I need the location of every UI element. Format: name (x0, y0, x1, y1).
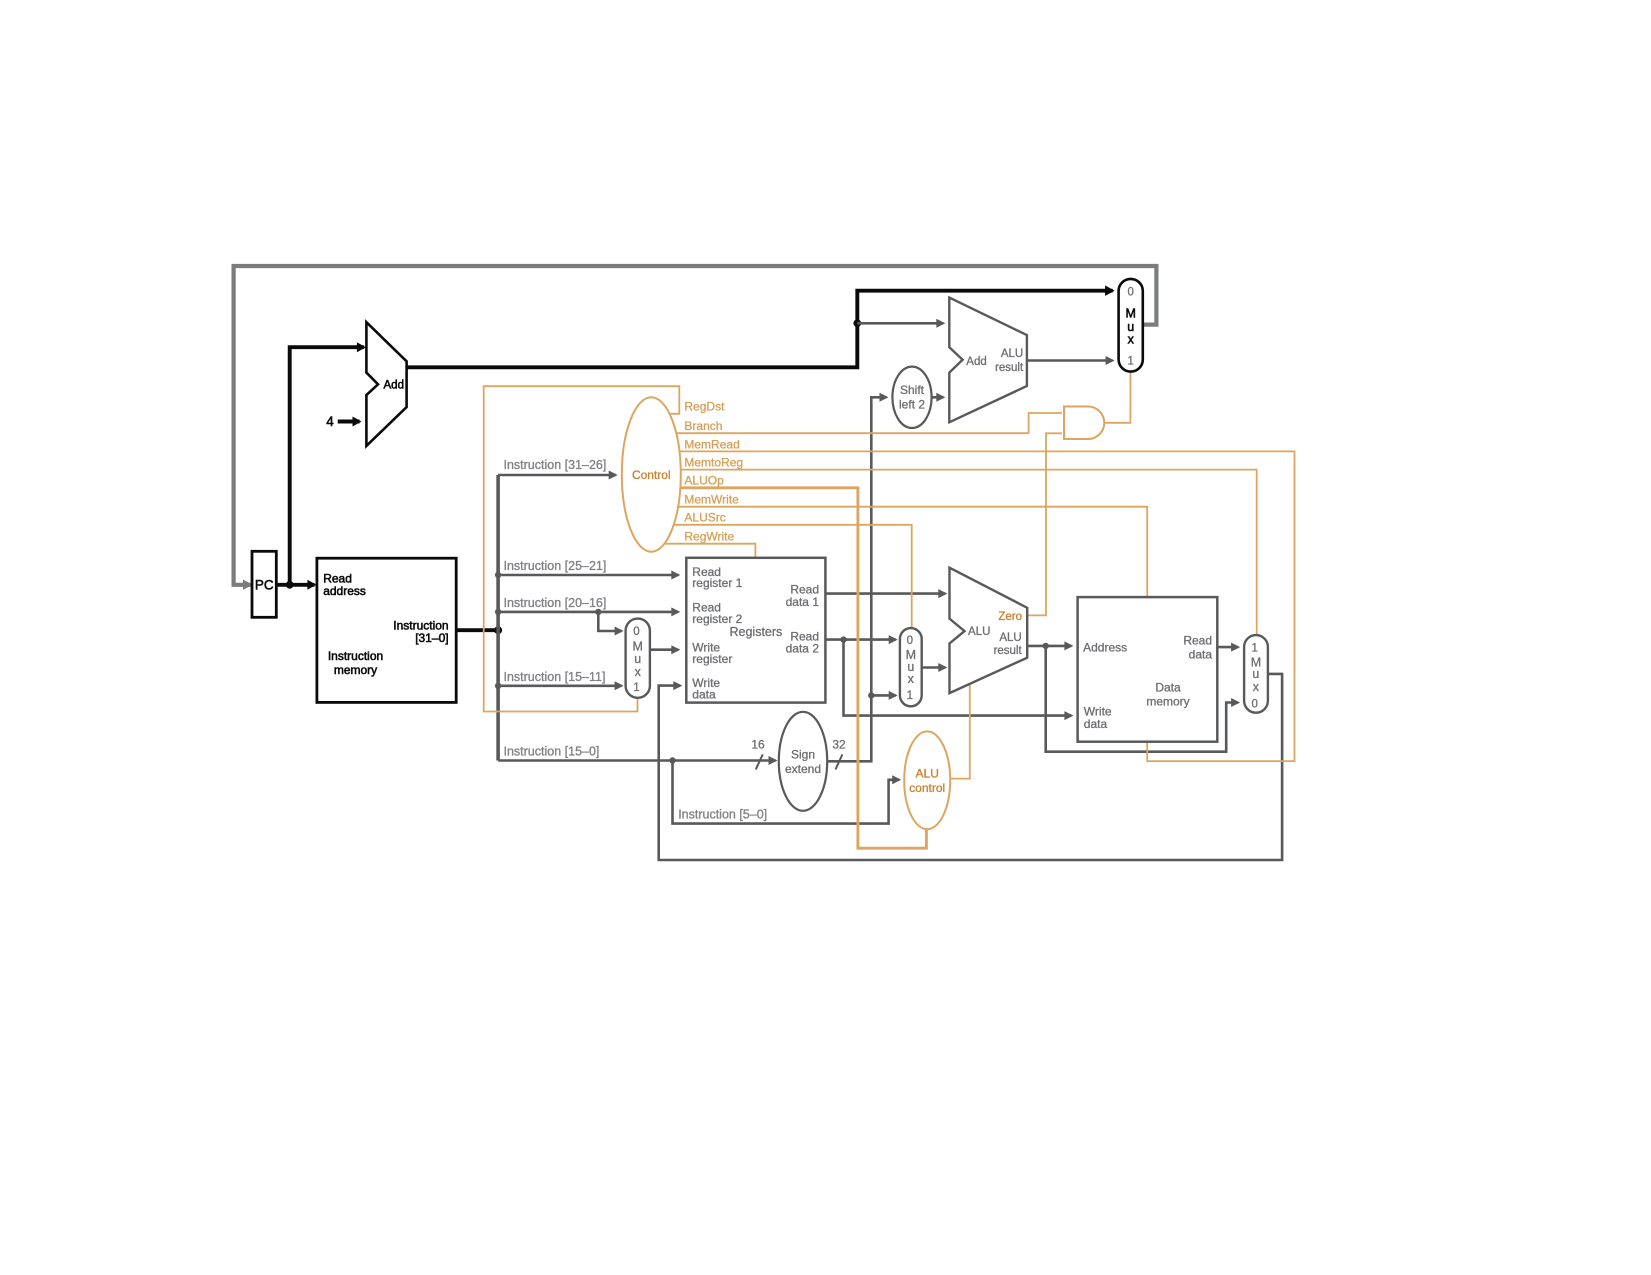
svg-text:RegDst: RegDst (684, 400, 725, 414)
svg-text:extend: extend (785, 762, 821, 776)
svg-text:MemRead: MemRead (684, 437, 739, 451)
svg-text:MemWrite: MemWrite (684, 493, 739, 507)
wire MemRead control to Data memory (660, 451, 1295, 761)
svg-text:u: u (634, 652, 641, 666)
svg-text:x: x (1128, 332, 1135, 346)
wire Read data 1 to ALU (825, 592, 945, 595)
ellipse ALU control (904, 731, 950, 829)
svg-text:data 2: data 2 (786, 641, 820, 655)
wire PC to Instruction memory read address (black) (276, 583, 314, 587)
ellipse Sign extend (779, 712, 827, 811)
svg-text:1: 1 (1127, 356, 1133, 368)
svg-text:result: result (994, 645, 1023, 657)
svg-text:1: 1 (633, 682, 639, 694)
node trunk junction 20-16 (495, 609, 501, 615)
svg-text:16: 16 (751, 738, 765, 752)
svg-text:0: 0 (633, 626, 639, 638)
svg-text:[31–0]: [31–0] (415, 631, 448, 645)
svg-text:ALU: ALU (1001, 348, 1023, 360)
svg-text:Instruction [15–11]: Instruction [15–11] (504, 670, 606, 684)
wire MemWrite control to Data memory (660, 507, 1147, 596)
wire MemtoReg control to right mux select (660, 470, 1257, 634)
wire write-back: right mux output to Registers Write data (659, 674, 1282, 860)
svg-text:Instruction [5–0]: Instruction [5–0] (678, 808, 767, 822)
wire Instruction [20-16] to Read register 2 (498, 611, 678, 614)
box Instruction memory (317, 558, 456, 702)
wire sign extend output to ALU-src mux input 1 (871, 694, 895, 697)
svg-text:Instruction [31–26]: Instruction [31–26] (504, 458, 607, 472)
svg-text:Read: Read (1183, 634, 1212, 648)
svg-text:0: 0 (1251, 698, 1257, 710)
svg-text:memory: memory (1146, 695, 1189, 709)
svg-text:Address: Address (1083, 640, 1127, 654)
wire write-register mux output to Write register (650, 648, 678, 651)
wire ALU-src mux output to ALU (922, 666, 946, 669)
svg-text:data: data (692, 688, 716, 702)
svg-text:data: data (1189, 648, 1213, 662)
node PC+4 junction to branch adder (853, 319, 861, 327)
svg-text:data: data (1084, 717, 1108, 731)
box Registers (686, 558, 825, 703)
wire AND gate output to top mux select (1104, 371, 1130, 423)
node instruction trunk junction (494, 626, 502, 634)
svg-text:ALUSrc: ALUSrc (684, 511, 725, 525)
mux top (PCSrc) (1119, 279, 1143, 372)
gate AND (branch) (1064, 407, 1104, 440)
svg-text:32: 32 (832, 738, 846, 752)
box Data memory (1078, 597, 1218, 742)
svg-text:PC: PC (255, 577, 274, 592)
wire Read data to right mux input 1 (1217, 646, 1238, 649)
svg-text:ALU: ALU (968, 626, 990, 638)
svg-text:1: 1 (1251, 642, 1257, 654)
mux ALU source (ALUSrc) (900, 628, 922, 706)
svg-text:Instruction: Instruction (328, 649, 383, 663)
svg-text:data 1: data 1 (786, 595, 820, 609)
svg-text:Branch: Branch (684, 419, 722, 433)
wire Add result (PC+4) to top mux input 0 (black) (407, 291, 1113, 368)
wire PC-source loop: top mux output to PC input (234, 266, 1157, 585)
wire Instruction [15-0] to sign extend (498, 759, 775, 762)
node 15-0 junction (669, 757, 675, 763)
wire instruction trunk vertical (496, 475, 500, 761)
wire ALUOp control to ALU control (660, 488, 926, 848)
svg-text:Control: Control (632, 468, 671, 482)
node sign extend output junction (868, 692, 874, 698)
svg-text:Instruction [15–0]: Instruction [15–0] (504, 745, 600, 759)
svg-text:Instruction [25–21]: Instruction [25–21] (504, 559, 607, 573)
alu ALU main (950, 568, 1028, 693)
wire constant 4 into Add (338, 420, 360, 424)
bus width slash 16 (756, 754, 763, 769)
svg-text:memory: memory (334, 663, 377, 677)
register PC (252, 551, 276, 617)
wire ALU result to Data memory Address (1027, 645, 1071, 648)
wire branch Add result to top mux input 1 (1027, 359, 1113, 362)
svg-text:Zero: Zero (998, 611, 1022, 623)
wire PC value up to Add (black) (290, 347, 364, 585)
svg-text:left 2: left 2 (899, 398, 925, 412)
svg-text:register 1: register 1 (692, 576, 742, 590)
wire PC+4 to branch Add top input (857, 322, 943, 325)
svg-text:M: M (1125, 306, 1135, 320)
svg-text:x: x (1253, 680, 1260, 694)
svg-text:ALUOp: ALUOp (684, 474, 724, 488)
svg-text:RegWrite: RegWrite (684, 530, 734, 544)
wire sign extend output up to shift left 2 (827, 397, 886, 761)
svg-text:register: register (692, 652, 732, 666)
svg-text:Shift: Shift (900, 383, 925, 397)
node PC output junction (286, 581, 294, 589)
wire Instruction [25-21] to Read register 1 (498, 574, 678, 577)
wire RegWrite control to Registers (660, 544, 755, 557)
bus width slash 32 (836, 754, 843, 769)
svg-text:result: result (995, 362, 1024, 374)
svg-text:Data: Data (1155, 681, 1181, 695)
adder Add (branch target) (949, 298, 1027, 423)
ellipse Shift left 2 (892, 367, 931, 428)
svg-text:x: x (908, 672, 915, 686)
wire ALUSrc control to ALU-src mux select (660, 525, 912, 627)
node 20-16 branch junction (595, 609, 601, 615)
adder Add (PC+4) (366, 322, 406, 446)
svg-text:Registers: Registers (730, 625, 783, 639)
wire Instruction [31-0] from instruction memory (black) (456, 628, 498, 632)
ellipse Control unit (622, 397, 681, 551)
wire Instruction [5-0] to ALU control (673, 761, 900, 824)
svg-text:0: 0 (907, 635, 913, 647)
svg-text:address: address (323, 584, 366, 598)
wire Instruction [20-16] branch to write-register mux input 0 (598, 612, 621, 631)
wire Branch control to AND gate (660, 413, 1062, 433)
node ALU result junction (1043, 643, 1049, 649)
wire Read data 2 to ALU-src mux input 0 (825, 638, 895, 641)
node trunk junction 15-11 (495, 683, 501, 689)
svg-text:4: 4 (326, 414, 334, 429)
svg-text:Sign: Sign (791, 747, 815, 761)
wire ALU control output to ALU (948, 684, 970, 779)
svg-text:1: 1 (907, 690, 913, 702)
svg-text:Instruction [20–16]: Instruction [20–16] (504, 596, 607, 610)
wire Read data 2 to Data memory Write data (844, 640, 1072, 716)
wire Zero flag from ALU to AND gate (1010, 433, 1062, 615)
wire Instruction [31-26] to Control (498, 474, 616, 477)
node trunk junction 25-21 (495, 572, 501, 578)
svg-text:x: x (635, 665, 642, 679)
svg-text:MemtoReg: MemtoReg (684, 456, 743, 470)
wire Instruction [15-11] to write-register mux input 1 (498, 684, 621, 687)
wire ALU result bypass to right mux input 0 (1046, 646, 1238, 752)
node read data 2 junction (840, 636, 846, 642)
svg-text:0: 0 (1127, 287, 1133, 299)
svg-text:Add: Add (966, 356, 986, 368)
mux write-register (RegDst) (626, 619, 650, 698)
wire shift left 2 to branch Add (932, 396, 944, 399)
mux write-back (MemtoReg) (1244, 635, 1268, 713)
svg-text:ALU: ALU (916, 767, 939, 781)
wire RegDst control to write-register mux select (484, 386, 680, 711)
svg-text:control: control (909, 781, 945, 795)
svg-text:ALU: ALU (999, 632, 1021, 644)
svg-text:Add: Add (384, 380, 404, 392)
